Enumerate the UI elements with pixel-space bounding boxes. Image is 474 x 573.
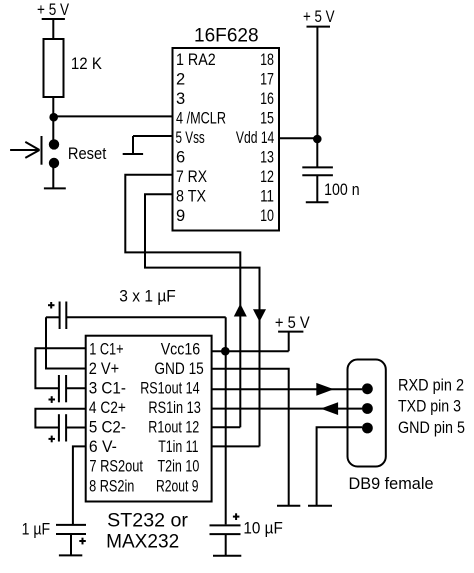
J1 contact TXD: [362, 403, 373, 414]
svg-text:6 V-: 6 V-: [89, 438, 117, 456]
wire node to /MCLR pin 4: [53, 115, 172, 117]
ground (DB9 shield): [308, 505, 332, 507]
svg-text:GND pin 5: GND pin 5: [398, 419, 465, 437]
wire +5V to Vdd node: [316, 27, 318, 139]
wire C2 minus plate to Vcc node: [66, 316, 225, 318]
svg-text:7 RS2out: 7 RS2out: [89, 458, 143, 476]
svg-text:TXD pin 3: TXD pin 3: [398, 398, 461, 416]
ground (reset switch): [44, 187, 66, 189]
arrow down on TX net: [253, 309, 266, 322]
svg-text:2 V+: 2 V+: [89, 360, 119, 378]
connector J1 DB9 female body: [348, 360, 386, 467]
arrow right on RXD net: [316, 383, 334, 396]
ground (1uF cap): [59, 554, 82, 556]
svg-text:6: 6: [176, 149, 185, 167]
svg-text:2: 2: [176, 70, 185, 88]
svg-text:7 RX: 7 RX: [176, 168, 207, 186]
svg-text:10: 10: [260, 207, 274, 225]
pushbutton switch S1 Reset: [10, 136, 59, 168]
svg-text:100 n: 100 n: [324, 181, 360, 199]
svg-text:+ 5 V: + 5 V: [303, 8, 335, 26]
wire Vcc node down to 10uF cap: [225, 317, 227, 524]
node Vcc junction dot: [221, 347, 230, 356]
wire GND15 to ground: [212, 369, 289, 505]
svg-text:Vdd 14: Vdd 14: [236, 129, 274, 147]
arrow up on RX net: [234, 304, 247, 317]
wire RS1in13 to TXD pin3: [212, 408, 362, 410]
svg-text:RS1out 14: RS1out 14: [140, 380, 199, 398]
arrow left on TXD net: [321, 402, 339, 415]
svg-text:+ 5 V: + 5 V: [275, 314, 310, 332]
svg-text:R2out 9: R2out 9: [156, 477, 199, 495]
svg-text:1 C1+: 1 C1+: [89, 340, 123, 358]
svg-text:GND 15: GND 15: [154, 360, 203, 378]
U1 pin labels right column: [236, 51, 274, 225]
wire +5V to resistor R1: [52, 19, 54, 40]
wire Vdd pin14 to +5V: [279, 137, 317, 139]
wire V- pin6 down to 1uF cap: [73, 446, 86, 525]
svg-text:10 µF: 10 µF: [243, 520, 282, 538]
svg-text:MAX232: MAX232: [106, 531, 179, 553]
wire +5V to Vcc row: [288, 332, 290, 352]
svg-text:4 /MCLR: 4 /MCLR: [176, 110, 226, 128]
svg-text:DB9 female: DB9 female: [349, 475, 434, 493]
svg-text:13: 13: [260, 149, 274, 167]
svg-text:16: 16: [260, 90, 274, 108]
power +5V symbol (reset pull-up): [37, 1, 69, 19]
capacitor C5 1 uF (V- to ground): [56, 525, 86, 555]
wire T1in11 stub: [212, 445, 260, 447]
svg-text:15: 15: [260, 110, 274, 128]
svg-text:3 C1-: 3 C1-: [89, 380, 126, 398]
svg-text:8 RS2in: 8 RS2in: [89, 477, 134, 495]
IC U1 16F628 body: [173, 48, 280, 231]
wire DB9 GND pin5 to ground: [317, 427, 362, 505]
resistor R1 12 K: [44, 39, 64, 97]
svg-text:RS1in 13: RS1in 13: [148, 399, 200, 417]
node Vdd junction dot: [313, 135, 322, 144]
svg-text:3 x 1 µF: 3 x 1 µF: [119, 288, 176, 306]
power +5V symbol (Vdd): [303, 8, 335, 27]
svg-text:R1out 12: R1out 12: [148, 419, 199, 437]
svg-text:+ 5 V: + 5 V: [37, 1, 69, 19]
svg-text:17: 17: [260, 70, 274, 88]
svg-text:1 µF: 1 µF: [22, 521, 50, 539]
svg-text:Reset: Reset: [68, 145, 107, 163]
wire RS1out14 to RXD pin2: [212, 388, 362, 390]
U2 pin labels left column: [89, 340, 144, 495]
svg-text:16F628: 16F628: [194, 25, 259, 47]
svg-text:ST232 or: ST232 or: [107, 510, 188, 532]
svg-text:5 Vss: 5 Vss: [176, 129, 205, 147]
U1 pin labels left column: [176, 51, 227, 225]
capacitor C6 10 uF (Vcc to ground): [210, 513, 241, 555]
wire C2 plus plate to V+ pin2: [46, 317, 86, 368]
wire TX pin8 to T1in pin11: [145, 194, 260, 446]
ground (U1 Vss pin 5): [123, 136, 173, 154]
svg-text:18: 18: [260, 51, 274, 69]
svg-text:12: 12: [260, 168, 274, 186]
svg-text:9: 9: [176, 207, 185, 225]
svg-text:8 TX: 8 TX: [176, 188, 206, 206]
capacitor C2 1uF (V+ to Vcc): [46, 302, 66, 330]
IC U2 ST232/MAX232 body: [86, 336, 212, 502]
J1 contact GND: [362, 423, 373, 434]
wire resistor to switch: [52, 97, 54, 140]
svg-text:T2in 10: T2in 10: [158, 458, 200, 476]
svg-text:4 C2+: 4 C2+: [89, 399, 126, 417]
capacitor C1 100 n: [302, 139, 333, 202]
ground (100n cap): [306, 201, 329, 203]
wire RX pin7 to R1out pin12: [125, 175, 240, 428]
J1 contact RXD: [362, 383, 373, 394]
svg-text:3: 3: [176, 90, 185, 108]
wire R1out12 stub: [212, 426, 241, 428]
capacitor C3 1uF (C1+ to C1-): [35, 348, 85, 403]
node MCLR junction dot: [49, 113, 58, 122]
power +5V symbol (Vcc): [275, 314, 310, 332]
svg-text:RXD pin 2: RXD pin 2: [398, 377, 464, 395]
wire switch to ground: [52, 168, 54, 188]
svg-text:1 RA2: 1 RA2: [176, 51, 216, 69]
wire Vcc16 to +5V: [212, 350, 289, 352]
svg-text:T1in 11: T1in 11: [158, 438, 198, 456]
svg-text:5 C2-: 5 C2-: [89, 419, 126, 437]
U2 pin labels right column: [140, 340, 204, 495]
IC U2 title ST232 or MAX232: [106, 510, 188, 553]
svg-text:12 K: 12 K: [71, 55, 102, 73]
svg-text:Vcc16: Vcc16: [161, 340, 201, 358]
capacitor C4 1uF (C2+ to C2-): [35, 409, 85, 443]
ground (U2 GND15): [277, 505, 300, 507]
svg-text:11: 11: [260, 188, 274, 206]
ground (10uF cap): [213, 555, 241, 557]
